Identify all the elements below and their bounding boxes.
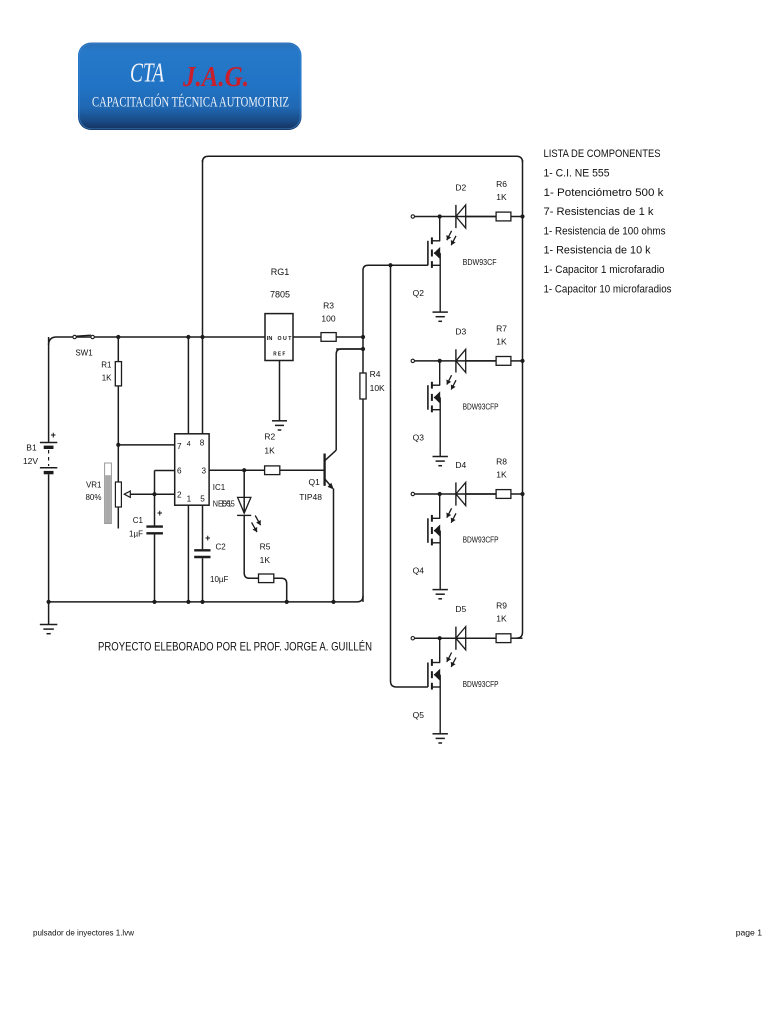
svg-text:100: 100 [321,314,335,324]
svg-text:Q2: Q2 [413,288,425,298]
svg-text:1: 1 [187,494,192,503]
ground Q3 source [433,457,448,466]
wire pin4 to rail [187,337,189,434]
wire pin1 to ground rail [187,505,189,602]
VR1 wiper arrow [124,491,154,497]
diode D2 [455,182,496,228]
node pin2-C1 junction [152,492,156,496]
svg-text:+: + [157,508,162,518]
label D1 overlapping NE555 [222,499,233,508]
svg-text:2: 2 [177,491,182,500]
node D5 junction [438,636,442,640]
node gate bus top junction [388,263,392,267]
svg-text:1- Resistencia de 100 ohms: 1- Resistencia de 100 ohms [544,225,667,237]
svg-text:Q1: Q1 [309,477,321,487]
svg-text:Q4: Q4 [413,566,425,576]
ground Q2 source [433,312,448,321]
potentiometer VR1 body [115,445,121,529]
svg-text:D2: D2 [455,182,466,192]
node C2-rail junction [200,600,204,604]
transistor Q1 TIP48 [299,349,363,602]
node R8-bus junction [520,492,524,496]
svg-text:R5: R5 [260,542,271,552]
transistor Q5 BDW93CFP [413,638,499,734]
svg-text:B1: B1 [26,442,37,452]
node pin4-rail junction [186,335,190,339]
svg-text:1K: 1K [496,470,507,480]
node pin1-rail junction [186,600,190,604]
wire R3 node up to gate line [363,265,428,337]
node R3-bus junction [361,335,365,339]
svg-text:80%: 80% [85,493,101,502]
svg-text:R3: R3 [323,301,334,311]
resistor R4 10K [360,349,385,602]
node Q1 emitter-rail junction [331,600,335,604]
svg-text:R8: R8 [496,457,507,467]
svg-text:R7: R7 [496,323,507,333]
resistor R1 1K [101,337,121,445]
svg-text:pulsador de inyectores 1.lvw: pulsador de inyectores 1.lvw [33,928,135,938]
node pin8-rail junction [200,335,204,339]
node R1-rail junction [116,335,120,339]
wire R3 node to R4 link [336,337,363,349]
resistor R5 1K [244,542,287,602]
svg-text:BDW93CFP: BDW93CFP [463,680,499,689]
svg-text:4: 4 [187,441,191,448]
voltage regulator RG1 7805 [265,267,293,361]
svg-text:page 1: page 1 [736,928,763,938]
wire stage Q4 input [414,493,496,495]
svg-text:1K: 1K [496,192,507,202]
battery B1 12V [23,337,57,602]
svg-text:D3: D3 [455,327,466,337]
terminal Q4 input [411,492,414,495]
svg-text:BDW93CF: BDW93CF [463,258,497,267]
svg-text:D1: D1 [222,499,233,508]
footer left filename [33,928,135,938]
svg-text:BDW93CFP: BDW93CFP [463,403,499,412]
svg-text:1- Capacitor 10 microfaradios: 1- Capacitor 10 microfaradios [544,283,673,295]
svg-text:CAPACITACIÓN TÉCNICA AUTOMOTRI: CAPACITACIÓN TÉCNICA AUTOMOTRIZ [92,94,289,111]
diode D4 [455,460,496,506]
ground 7805 REF [272,361,287,431]
svg-text:1K: 1K [102,374,112,383]
node R4 top junction [361,347,365,351]
capacitor C1 1uF [129,494,163,602]
svg-text:Q5: Q5 [413,710,425,720]
svg-text:D4: D4 [455,460,466,470]
svg-text:C2: C2 [216,542,227,551]
svg-text:12V: 12V [23,456,38,466]
VR1 80% level indicator [85,463,111,524]
svg-text:R6: R6 [496,179,507,189]
svg-text:J.A.G.: J.A.G. [182,61,249,93]
ground Q4 source [433,590,448,599]
svg-text:7- Resistencias de 1 k: 7- Resistencias de 1 k [544,206,655,218]
svg-text:LISTA DE COMPONENTES: LISTA DE COMPONENTES [544,148,661,160]
svg-text:1K: 1K [496,336,507,346]
wire pin3 to R2 [209,469,265,471]
ground Q5 source [433,734,448,743]
svg-text:IC1: IC1 [213,483,226,492]
switch SW1 [73,335,94,357]
svg-text:R2: R2 [264,432,275,442]
svg-text:1- C.I. NE 555: 1- C.I. NE 555 [544,168,610,180]
svg-text:10K: 10K [370,383,385,393]
node R1-pin7 junction [116,443,120,447]
terminal Q5 input [411,637,414,640]
node rail left corner [47,600,51,604]
transistor Q2 BDW93CF [413,217,497,313]
wire stage Q2 input [414,216,496,218]
svg-text:5: 5 [200,494,205,503]
wire top 12V rail [49,337,265,345]
wire pin7 to R1 [118,444,174,446]
resistor R3 100 [321,301,363,342]
svg-text:10µF: 10µF [210,575,229,584]
svg-text:+: + [51,430,56,440]
wire pin2 to wiper [155,493,175,495]
wire left gate bus [391,265,428,687]
svg-text:PROYECTO ELEBORADO POR EL PROF: PROYECTO ELEBORADO POR EL PROF. JORGE A.… [98,638,372,653]
svg-text:SW1: SW1 [75,349,93,358]
node D3 junction [438,359,442,363]
wire stage Q5 input [414,637,496,639]
transistor Q4 BDW93CFP [413,494,499,590]
svg-text:1- Capacitor 1 microfaradio: 1- Capacitor 1 microfaradio [544,264,665,276]
svg-text:+: + [205,533,210,543]
svg-text:D5: D5 [455,604,466,614]
resistor R9 1K [496,601,522,643]
svg-text:IN: IN [267,336,273,342]
component list text [544,148,673,295]
svg-text:1- Potenciómetro 500 k: 1- Potenciómetro 500 k [544,187,665,199]
node pin3-D1 junction [242,468,246,472]
wire stage Q3 input [414,360,496,362]
svg-text:1- Resistencia de 10 k: 1- Resistencia de 10 k [544,245,652,257]
svg-text:RG1: RG1 [271,267,290,277]
resistor R2 1K [264,432,279,475]
wire 7805 OUT to R3 [293,336,321,338]
svg-text:7: 7 [177,442,182,451]
node R7-bus junction [520,359,524,363]
svg-text:1µF: 1µF [129,530,143,539]
svg-text:1K: 1K [264,446,275,456]
svg-text:1K: 1K [260,555,271,565]
wire R2 to Q1 base [280,469,324,471]
svg-text:6: 6 [177,467,182,476]
wire pin6 to pin2 net [155,471,175,495]
node R5-rail junction [285,600,289,604]
svg-text:C1: C1 [133,516,144,525]
svg-text:R E F: R E F [273,352,285,358]
svg-text:Q3: Q3 [413,433,425,443]
op-amp/timer IC1 NE555 [175,434,236,509]
node D2 junction [438,214,442,218]
wire top output feed [203,156,523,162]
logo CTA J.A.G. banner [78,43,302,131]
svg-text:R9: R9 [496,601,507,611]
svg-text:TIP48: TIP48 [299,492,322,502]
transistor Q3 BDW93CFP [413,361,499,457]
node C1-rail junction [152,600,156,604]
node D4 junction [438,492,442,496]
wire pin8 vertical [202,160,204,434]
ground main [40,602,58,634]
terminal Q2 input [411,215,414,218]
svg-text:O U T: O U T [278,336,293,342]
capacitor C2 10uF [194,505,228,602]
terminal Q3 input [411,359,414,362]
wire bottom ground rail [49,596,363,602]
svg-text:3: 3 [202,467,207,476]
svg-text:7805: 7805 [270,290,290,300]
title text [98,638,372,653]
resistor R7 1K [496,323,522,365]
diode D5 [455,604,496,650]
resistor R8 1K [496,457,522,499]
svg-text:1K: 1K [496,614,507,624]
node R6-bus junction [520,214,524,218]
svg-text:R1: R1 [101,361,112,370]
svg-text:VR1: VR1 [86,480,102,489]
wire right output bus [517,160,523,638]
svg-text:BDW93CFP: BDW93CFP [463,536,499,545]
svg-text:8: 8 [200,438,205,447]
footer right page [736,928,763,938]
LED D1 [237,470,261,573]
resistor R6 1K [496,179,522,221]
diode D3 [455,327,496,373]
svg-text:CTA: CTA [130,58,164,88]
svg-text:R4: R4 [370,369,381,379]
